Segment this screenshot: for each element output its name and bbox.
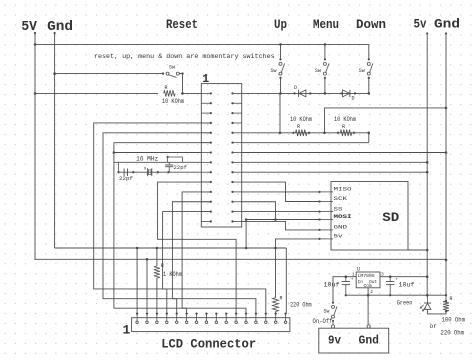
svg-text:1: 1 [123,323,131,338]
wire Down switch drop [368,44,370,59]
wire LCD pin2 to 5V line [146,259,148,313]
svg-text:SD: SD [382,210,399,225]
svg-text:or: or [430,323,438,330]
svg-text:10uf: 10uf [399,281,415,288]
wire regulator input pin [346,276,356,278]
capacitor C5 10uf (output) [389,277,391,282]
svg-text:Sw: Sw [315,68,321,74]
LCD connector body [132,318,290,332]
svg-text:Down: Down [356,17,386,32]
svg-text:reset, up, menu & down are mom: reset, up, menu & down are momentary swi… [94,53,275,61]
wire LCD pin1 to Gnd line [136,248,138,314]
wire Gnd-left distribution line [55,247,287,249]
svg-text:MOSI: MOSI [334,213,353,220]
wire row 10 to SD SCK [242,182,320,201]
svg-text:U: U [357,267,360,273]
svg-text:1 KOhm: 1 KOhm [163,271,182,278]
wire reset switch to reset net [179,74,182,94]
svg-text:LM7805: LM7805 [358,273,375,279]
wire row 8 right to 5v rail [242,161,428,163]
svg-text:Sw: Sw [324,309,330,315]
wire row 4 left to LCD pin 4 [94,123,211,314]
svg-text:220 Ohm: 220 Ohm [290,302,312,309]
SD pin SS [320,211,334,213]
wire SD 5v to 5V line [276,239,320,248]
resistor R1 10 KOhm (reset pullup) [164,90,175,96]
svg-text:10 KOhm: 10 KOhm [334,116,356,123]
resistor R3 10 KOhm (Down pulldown) [337,132,339,134]
wire 5V to resistor R1 [35,92,158,94]
svg-text:Menu: Menu [313,17,339,32]
wire row 9 right to 5v rail [242,171,428,173]
svg-text:22pf: 22pf [174,165,188,171]
svg-text:R: R [297,124,300,130]
wire row 11 to SD MISO [242,191,320,193]
wire row 5 left to LCD pin 5 [103,133,211,314]
wire row 7 right to Gnd rail [242,152,446,154]
battery box 9v Gnd [319,328,389,353]
wire R1 to connector pin 1 [181,92,201,94]
svg-text:+: + [351,278,354,283]
wire Down switch net to row 6 [368,133,370,143]
wire Up switch to pulldown row [279,93,281,132]
svg-text:Up: Up [274,17,287,32]
wire LCD pin16 from F line [285,248,287,314]
svg-text:9v: 9v [328,333,341,347]
wire row 11 left to LCD pin 12 [182,192,246,314]
regulator U2 LM7805 [356,272,380,288]
diode D1 (Up to reset net) [293,92,295,94]
svg-text:MISO: MISO [334,186,353,193]
svg-text:5v: 5v [334,233,344,240]
SD pin GND [320,229,334,231]
wire 9v to regulator input [333,277,346,303]
wire MOSI horizontal [246,219,319,221]
capacitor C1 22pf [123,169,125,177]
wire row 6 right (Down net to connector) [242,142,369,144]
SD pin MOSI [320,219,334,221]
wire row 14 to SD GND [242,221,320,229]
svg-text:R: R [342,124,345,130]
wire 5V top rail (horizontal) [35,43,369,45]
LCD pins [136,314,138,322]
switch SW Up (momentary) [279,58,281,60]
switch SW1 Reset (momentary) [162,72,164,74]
connector U1 pins [201,92,211,94]
wire Gnd left rail (vertical) [54,32,56,34]
LED D3 Green [426,295,428,303]
svg-text:R: R [450,296,453,302]
wire 5V-left distribution line [35,258,446,261]
SD pin SCK [320,201,334,203]
wire reset/diode net (row 1 right) [242,92,369,94]
svg-text:On-Off: On-Off [313,318,333,325]
capacitor C3 22pf (under crystal) [167,171,169,173]
wire row 7 left (to L6 bus) [114,152,201,154]
svg-text:LCD Connector: LCD Connector [161,338,256,352]
switch SW Down (momentary) [368,58,370,60]
wire cap1 to gnd row [118,162,120,172]
resistor R6 100/220 Ohm (LED) [445,300,447,302]
wire row 9 left (crystal line) [119,171,202,173]
svg-text:16 MHz: 16 MHz [136,156,158,163]
capacitor C4 10uf (input) [345,277,347,282]
svg-text:SCK: SCK [334,195,348,202]
wire Menu switch drop [324,43,327,46]
svg-text:5V: 5V [21,19,37,35]
switch SW Menu (momentary) [324,58,326,60]
wire Gnd right rail (vertical) [445,32,447,34]
wire MOSI stub to F line [245,220,247,249]
crystal bracket [168,157,183,162]
svg-text:Com: Com [364,283,372,289]
switch SW On-Off [332,321,334,325]
svg-text:5v: 5v [414,17,427,32]
diode D2 (Menu to reset net) [340,92,342,94]
svg-text:SS: SS [334,205,344,212]
resistor R5 220 Ohm (backlight) [275,248,277,298]
wire row 10 left loop to LCD pin 11 [158,182,237,314]
wire row 13 to SD SS [242,211,320,213]
resistor R4 1 KOhm (contrast) [156,248,158,266]
wire pulldown row (row 5 right) [242,132,369,134]
wire row 12 to SD MOSI [242,202,276,220]
svg-text:Gnd: Gnd [359,333,380,347]
svg-text:D: D [352,96,355,102]
svg-text:220 Ohm: 220 Ohm [441,330,465,337]
wire Gnd to reset switch [55,73,163,75]
svg-text:Gnd: Gnd [47,19,73,35]
svg-text:10 KOhm: 10 KOhm [290,116,312,123]
wire Up switch drop [279,43,282,46]
wire SD box bottom to 5v rail [408,249,427,251]
wire local ground bus to Gnd rail [346,294,446,296]
svg-text:22pf: 22pf [119,176,133,182]
svg-text:100 Ohm: 100 Ohm [442,317,466,324]
svg-text:+: + [395,278,398,283]
svg-text:Sw: Sw [169,64,175,70]
crystal X1 16 MHz [147,168,149,176]
svg-text:R: R [165,85,168,91]
svg-text:GND: GND [334,224,348,231]
svg-text:In: In [358,279,364,285]
svg-text:R: R [280,296,283,302]
svg-text:R: R [161,263,164,269]
svg-text:10 KOhm: 10 KOhm [162,98,184,105]
wire pulldown mid node to Gnd rail [325,108,447,133]
svg-text:3: 3 [381,272,384,278]
svg-text:x: x [144,167,147,172]
svg-text:D: D [294,85,297,91]
resistor R2 10 KOhm (Up pulldown) [292,132,294,134]
svg-text:Gnd: Gnd [434,17,460,32]
wire row 13 left to LCD pin 14 [163,212,266,314]
svg-text:Reset: Reset [166,17,198,32]
wire regulator output pin [380,276,390,278]
wire regulator output to 5v rail [390,276,427,278]
wire LED anode to resistor [427,309,446,314]
wire row 12 left to LCD pin 13 [172,202,256,314]
svg-text:Sw: Sw [271,68,277,74]
terminal battery Gnd [367,325,370,328]
svg-text:1: 1 [202,73,209,86]
wire 5V left rail (vertical) [34,32,36,34]
svg-text:Green: Green [397,300,413,307]
terminal 9v [331,325,334,328]
SD card module body [331,182,408,251]
SD pin MISO [320,191,334,193]
wire 5v right rail (vertical) [426,32,428,34]
wire row 6 left to LCD pin 6 [114,143,211,314]
wire regulator common to battery Gnd [367,288,369,295]
SD pin 5v [320,238,334,240]
svg-text:Sw: Sw [359,68,365,74]
svg-text:10uf: 10uf [324,281,340,288]
svg-text:2: 2 [370,289,373,295]
connector U1 body [201,84,241,227]
wire row 8 left (gnd line) [114,161,201,163]
